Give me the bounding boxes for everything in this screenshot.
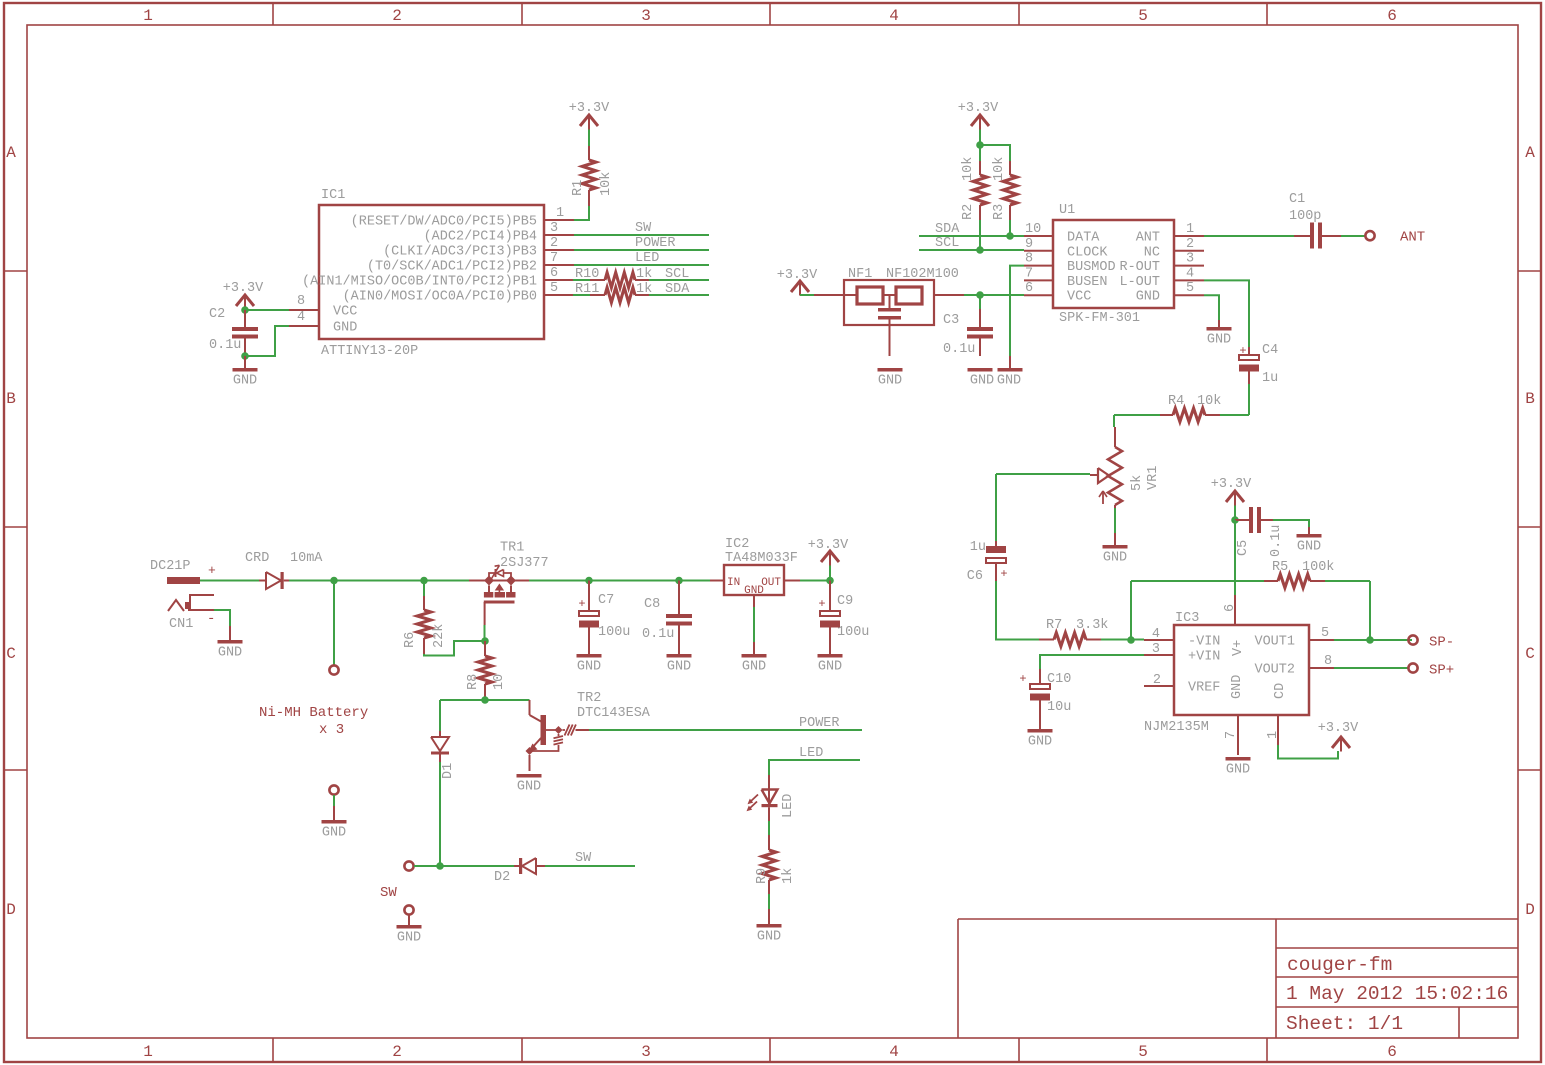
node terminal SW gnd xyxy=(404,905,413,914)
wire net SW xyxy=(545,851,635,866)
svg-text:100u: 100u xyxy=(837,625,869,640)
svg-text:NF102M100: NF102M100 xyxy=(886,267,959,282)
svg-text:+3.3V: +3.3V xyxy=(223,281,264,296)
svg-text:CN1: CN1 xyxy=(169,617,193,632)
svg-text:SCL: SCL xyxy=(935,236,959,251)
wire net LED xyxy=(769,746,860,775)
svg-text:9: 9 xyxy=(1025,237,1033,252)
svg-text:C5: C5 xyxy=(1236,540,1251,556)
wire xyxy=(1010,266,1024,356)
svg-text:GND: GND xyxy=(667,660,691,675)
transistor TR1 2SJ377 xyxy=(469,541,549,626)
svg-text:+3.3V: +3.3V xyxy=(1318,721,1359,736)
wire xyxy=(484,625,486,641)
svg-text:5: 5 xyxy=(1138,7,1148,25)
svg-text:+3.3V: +3.3V xyxy=(569,101,610,116)
wire xyxy=(574,206,589,220)
svg-text:GND: GND xyxy=(1230,675,1245,699)
ground (C9) xyxy=(818,654,843,675)
power +3.3V (R1) xyxy=(569,101,610,130)
svg-text:VOUT2: VOUT2 xyxy=(1254,663,1295,678)
svg-text:3: 3 xyxy=(641,7,651,25)
svg-text:R7: R7 xyxy=(1046,618,1062,633)
power +3.3V (R2/R3) xyxy=(958,101,999,130)
svg-text:POWER: POWER xyxy=(799,716,840,731)
transistor TR2 DTC143ESA xyxy=(526,691,651,771)
wire xyxy=(1113,415,1115,427)
wire xyxy=(1101,639,1144,641)
svg-text:C: C xyxy=(1525,645,1535,663)
node junction xyxy=(241,352,249,360)
svg-text:IC3: IC3 xyxy=(1175,611,1199,626)
wire xyxy=(1341,235,1365,237)
svg-text:TR2: TR2 xyxy=(577,691,601,706)
resistor R7 3.3k xyxy=(1039,618,1108,646)
svg-text:1: 1 xyxy=(1186,222,1194,237)
svg-text:ATTINY13-20P: ATTINY13-20P xyxy=(321,344,418,359)
svg-text:C1: C1 xyxy=(1289,192,1305,207)
connector DC21P xyxy=(150,559,216,584)
svg-text:1: 1 xyxy=(556,206,564,221)
svg-text:NJM2135M: NJM2135M xyxy=(1144,720,1209,735)
power +3.3V (C2) xyxy=(223,281,264,310)
ground (SW) xyxy=(397,915,422,946)
svg-text:R-OUT: R-OUT xyxy=(1119,260,1160,275)
node junction xyxy=(436,862,444,870)
svg-text:(RESET/DW/ADC0/PCI5)PB5: (RESET/DW/ADC0/PCI5)PB5 xyxy=(351,215,537,230)
node junction xyxy=(1231,516,1239,524)
capacitor C2 0.1u xyxy=(209,307,258,356)
svg-text:+3.3V: +3.3V xyxy=(777,268,818,283)
svg-text:+: + xyxy=(1239,344,1246,358)
svg-text:10k: 10k xyxy=(992,157,1007,181)
op-amp IC3 NJM2135M xyxy=(1144,595,1334,755)
svg-text:5: 5 xyxy=(550,281,558,296)
svg-text:4: 4 xyxy=(889,7,899,25)
svg-text:GND: GND xyxy=(577,660,601,675)
svg-text:(AIN0/MOSI/OC0A/PCI0)PB0: (AIN0/MOSI/OC0A/PCI0)PB0 xyxy=(343,290,537,305)
svg-text:DATA: DATA xyxy=(1067,231,1100,246)
svg-text:GND: GND xyxy=(517,780,541,795)
capacitor C8 0.1u xyxy=(642,581,692,655)
svg-text:D: D xyxy=(6,901,16,919)
svg-text:R3: R3 xyxy=(992,204,1007,220)
svg-text:SP+: SP+ xyxy=(1429,663,1454,679)
svg-text:100p: 100p xyxy=(1289,209,1321,224)
svg-text:3: 3 xyxy=(641,1043,651,1061)
wire xyxy=(245,326,289,356)
svg-text:4: 4 xyxy=(1152,627,1160,642)
svg-text:4: 4 xyxy=(889,1043,899,1061)
node junction xyxy=(826,577,834,585)
ground (C8) xyxy=(667,654,692,675)
wire xyxy=(333,795,335,806)
battery label xyxy=(259,705,368,738)
resistor R5 100k xyxy=(1131,560,1370,588)
svg-text:6: 6 xyxy=(1387,1043,1397,1061)
node junction xyxy=(675,577,683,585)
svg-text:GND: GND xyxy=(233,374,257,389)
ground (NF1) xyxy=(878,368,903,389)
svg-text:GND: GND xyxy=(397,931,421,946)
wire xyxy=(200,580,259,582)
svg-text:GND: GND xyxy=(322,826,346,841)
resistor R8 10 xyxy=(466,641,507,700)
svg-text:10mA: 10mA xyxy=(290,551,323,566)
power +3.3V (NF1) xyxy=(777,268,818,296)
svg-text:(T0/SCK/ADC1/PCI2)PB2: (T0/SCK/ADC1/PCI2)PB2 xyxy=(367,260,537,275)
svg-text:x 3: x 3 xyxy=(319,722,344,738)
svg-text:100u: 100u xyxy=(598,625,630,640)
svg-text:7: 7 xyxy=(1224,731,1239,739)
wire net SW xyxy=(574,221,709,236)
node terminal SW xyxy=(404,861,413,870)
svg-text:C6: C6 xyxy=(967,569,983,584)
svg-text:2: 2 xyxy=(1186,237,1194,252)
svg-text:22k: 22k xyxy=(432,624,447,648)
svg-text:R10: R10 xyxy=(575,267,599,282)
svg-text:VR1: VR1 xyxy=(1146,466,1161,490)
svg-text:10: 10 xyxy=(1025,222,1041,237)
capacitor C9 100u xyxy=(818,581,869,655)
wire xyxy=(753,607,755,642)
wire xyxy=(1204,235,1294,237)
svg-text:+: + xyxy=(818,597,825,611)
wire xyxy=(964,294,1024,296)
node junction xyxy=(481,696,489,704)
svg-text:6: 6 xyxy=(1025,281,1033,296)
svg-text:VCC: VCC xyxy=(1067,290,1091,305)
svg-text:-VIN: -VIN xyxy=(1188,635,1220,650)
svg-text:CRD: CRD xyxy=(245,551,269,566)
svg-text:OUT: OUT xyxy=(761,577,781,589)
svg-text:7: 7 xyxy=(1025,266,1033,281)
wire xyxy=(1204,295,1219,320)
svg-text:8: 8 xyxy=(1324,654,1332,669)
svg-text:Sheet: 1/1: Sheet: 1/1 xyxy=(1286,1013,1403,1035)
wire net POWER xyxy=(574,236,709,251)
svg-text:GND: GND xyxy=(218,646,242,661)
svg-text:10: 10 xyxy=(492,674,507,690)
wire xyxy=(768,894,770,909)
svg-text:SCL: SCL xyxy=(665,267,689,282)
svg-text:D2: D2 xyxy=(494,870,510,885)
wire xyxy=(800,294,814,296)
wire xyxy=(980,145,1010,161)
svg-text:LED: LED xyxy=(781,794,796,818)
svg-text:+3.3V: +3.3V xyxy=(1211,477,1252,492)
node junction xyxy=(976,291,984,299)
node junction xyxy=(976,246,984,254)
svg-text:VREF: VREF xyxy=(1188,681,1220,696)
svg-text:6: 6 xyxy=(1223,604,1238,612)
node junction xyxy=(976,141,984,149)
wire xyxy=(440,699,530,701)
svg-text:GND: GND xyxy=(757,930,781,945)
svg-text:3: 3 xyxy=(550,221,558,236)
svg-text:B: B xyxy=(6,390,16,408)
capacitor C1 100p xyxy=(1289,192,1341,249)
svg-text:V+: V+ xyxy=(1231,640,1246,656)
svg-text:GND: GND xyxy=(1028,735,1052,750)
svg-text:1k: 1k xyxy=(781,868,796,884)
svg-text:0.1u: 0.1u xyxy=(642,627,674,642)
wire net SDA xyxy=(649,282,709,297)
wire xyxy=(1334,667,1408,669)
node junction xyxy=(481,637,489,645)
svg-text:B: B xyxy=(1525,390,1535,408)
node junction xyxy=(420,577,428,585)
svg-text:SDA: SDA xyxy=(935,222,960,237)
svg-text:GND: GND xyxy=(997,374,1021,389)
svg-text:2: 2 xyxy=(392,1043,402,1061)
regulator IC2 TA48M033F xyxy=(710,537,800,607)
node terminal SP+ xyxy=(1408,663,1454,679)
svg-text:CD: CD xyxy=(1273,683,1288,699)
svg-text:3.3k: 3.3k xyxy=(1076,618,1108,633)
svg-text:U1: U1 xyxy=(1059,203,1075,218)
svg-text:BUSMOD: BUSMOD xyxy=(1067,260,1116,275)
svg-text:IC2: IC2 xyxy=(725,537,749,552)
svg-text:C8: C8 xyxy=(644,597,660,612)
wire net LED xyxy=(574,251,709,266)
svg-text:VOUT1: VOUT1 xyxy=(1254,635,1295,650)
ground (U1 pin5) xyxy=(1207,320,1232,348)
resistor R3 10k xyxy=(992,157,1017,236)
svg-text:A: A xyxy=(1525,144,1535,162)
node junction xyxy=(330,577,338,585)
svg-text:10u: 10u xyxy=(1047,700,1071,715)
ground (C10) xyxy=(1028,729,1053,750)
svg-text:1: 1 xyxy=(1266,731,1281,739)
svg-text:Ni-MH Battery: Ni-MH Battery xyxy=(259,705,368,721)
svg-text:6: 6 xyxy=(1387,7,1397,25)
svg-text:GND: GND xyxy=(742,660,766,675)
svg-text:1: 1 xyxy=(143,7,153,25)
wire net SDA xyxy=(919,222,1024,237)
svg-text:1u: 1u xyxy=(1262,371,1278,386)
svg-text:+: + xyxy=(578,597,585,611)
wire xyxy=(768,821,770,835)
svg-text:TR1: TR1 xyxy=(500,541,524,556)
wire xyxy=(1204,280,1249,347)
filter NF1 NF102M100 xyxy=(814,267,964,356)
svg-text:NF1: NF1 xyxy=(848,267,872,282)
svg-text:0.1u: 0.1u xyxy=(209,338,241,353)
svg-text:+: + xyxy=(1000,567,1007,581)
node terminal battery+ xyxy=(329,665,338,674)
ground (IC2) xyxy=(742,642,767,675)
svg-text:1u: 1u xyxy=(970,540,986,555)
svg-text:SDA: SDA xyxy=(665,282,690,297)
wire wiper xyxy=(996,473,1090,475)
wire rail xyxy=(289,580,469,582)
wire xyxy=(1234,506,1236,521)
node terminal ANT xyxy=(1365,230,1425,246)
node junction xyxy=(585,577,593,585)
diode D2 xyxy=(494,858,545,885)
svg-text:7: 7 xyxy=(550,251,558,266)
svg-text:5k: 5k xyxy=(1130,475,1145,491)
svg-text:C9: C9 xyxy=(837,594,853,609)
ground (TR2) xyxy=(517,774,542,795)
svg-text:(AIN1/MISO/OC0B/INT0/PCI2)PB1: (AIN1/MISO/OC0B/INT0/PCI2)PB1 xyxy=(302,275,537,290)
svg-text:couger-fm: couger-fm xyxy=(1287,954,1392,976)
resistor R6 22k xyxy=(403,581,447,655)
capacitor C7 100u xyxy=(578,581,630,655)
svg-text:5: 5 xyxy=(1138,1043,1148,1061)
svg-text:R11: R11 xyxy=(575,282,599,297)
wire xyxy=(995,474,997,541)
wire xyxy=(439,762,441,866)
ground (CN1) xyxy=(218,626,243,661)
svg-text:R5: R5 xyxy=(1272,560,1288,575)
svg-text:VCC: VCC xyxy=(333,305,357,320)
svg-text:4: 4 xyxy=(1186,266,1194,281)
wire xyxy=(588,130,590,147)
resistor R4 10k xyxy=(1114,394,1249,422)
svg-text:2SJ377: 2SJ377 xyxy=(500,556,549,571)
node terminal SP- xyxy=(1408,635,1454,651)
capacitor C5 0.1u xyxy=(1235,507,1284,557)
svg-text:R1: R1 xyxy=(571,180,586,196)
svg-text:R9: R9 xyxy=(755,868,770,884)
svg-text:5: 5 xyxy=(1321,626,1329,641)
svg-text:+: + xyxy=(1019,672,1026,686)
svg-text:L-OUT: L-OUT xyxy=(1119,275,1160,290)
svg-text:POWER: POWER xyxy=(635,236,676,251)
svg-text:LED: LED xyxy=(635,251,659,266)
resistor R1 10k xyxy=(571,146,614,206)
LED LED1 xyxy=(747,775,796,821)
svg-text:0.1u: 0.1u xyxy=(1269,525,1284,557)
ground (battery) xyxy=(322,806,347,841)
svg-text:2: 2 xyxy=(1153,673,1161,688)
svg-text:IC1: IC1 xyxy=(321,188,345,203)
svg-text:+3.3V: +3.3V xyxy=(958,101,999,116)
capacitor C4 1u xyxy=(1239,343,1278,386)
ground (IC3) xyxy=(1226,757,1251,778)
svg-text:1 May 2012 15:02:16: 1 May 2012 15:02:16 xyxy=(1286,983,1508,1005)
power +3.3V (C5) xyxy=(1211,477,1252,506)
wire net SCL xyxy=(919,236,1024,251)
wire xyxy=(800,580,830,582)
svg-text:GND: GND xyxy=(1226,763,1250,778)
svg-text:5: 5 xyxy=(1186,281,1194,296)
potentiometer VR1 5k xyxy=(1090,427,1161,508)
wire xyxy=(1273,520,1309,527)
svg-text:A: A xyxy=(6,144,16,162)
power +3.3V (IC3 CD) xyxy=(1318,721,1359,752)
capacitor C3 0.1u xyxy=(943,295,993,357)
svg-text:BUSEN: BUSEN xyxy=(1067,275,1108,290)
resistor R2 10k xyxy=(961,145,987,250)
svg-text:+VIN: +VIN xyxy=(1188,650,1220,665)
wire rail xyxy=(529,580,710,582)
svg-text:TA48M033F: TA48M033F xyxy=(725,551,798,566)
wire xyxy=(214,610,230,626)
svg-text:1: 1 xyxy=(143,1043,153,1061)
svg-text:SW: SW xyxy=(575,851,592,866)
svg-text:NC: NC xyxy=(1144,245,1160,260)
wire xyxy=(414,865,514,867)
svg-text:C10: C10 xyxy=(1047,672,1071,687)
node junction xyxy=(1366,636,1374,644)
svg-text:DTC143ESA: DTC143ESA xyxy=(577,706,651,721)
svg-text:3: 3 xyxy=(1186,252,1194,267)
svg-text:C3: C3 xyxy=(943,313,959,328)
wire xyxy=(1114,508,1116,533)
svg-text:3: 3 xyxy=(1152,642,1160,657)
svg-text:C4: C4 xyxy=(1262,343,1278,358)
svg-text:GND: GND xyxy=(878,374,902,389)
ground (R9) xyxy=(757,909,782,945)
resistor R9 1k xyxy=(755,835,796,894)
svg-text:GND: GND xyxy=(970,374,994,389)
svg-text:0.1u: 0.1u xyxy=(943,342,975,357)
ground (C3) xyxy=(968,368,995,389)
svg-text:10k: 10k xyxy=(599,172,614,196)
wire xyxy=(424,641,485,656)
diode D1 xyxy=(431,700,456,779)
wire pin6 supply xyxy=(1234,520,1236,595)
op-amp U1 SPK-FM-301 xyxy=(1024,203,1204,326)
wire net POWER xyxy=(589,716,862,731)
capacitor C6 1u xyxy=(967,540,1008,584)
svg-text:(CLKI/ADC3/PCI3)PB3: (CLKI/ADC3/PCI3)PB3 xyxy=(383,245,537,260)
capacitor C10 10u xyxy=(1019,669,1071,729)
svg-text:R4: R4 xyxy=(1168,394,1184,409)
svg-text:GND: GND xyxy=(818,660,842,675)
label SW terminal xyxy=(380,885,397,901)
svg-text:+3.3V: +3.3V xyxy=(808,538,849,553)
svg-text:10k: 10k xyxy=(1197,394,1221,409)
wire xyxy=(1248,384,1250,415)
connector CN1 jack xyxy=(168,595,215,632)
svg-text:GND: GND xyxy=(1207,333,1231,348)
svg-text:GND: GND xyxy=(333,321,357,336)
node junction xyxy=(1006,232,1014,240)
svg-text:+: + xyxy=(208,563,216,578)
svg-text:LED: LED xyxy=(799,746,823,761)
svg-text:ANT: ANT xyxy=(1136,231,1160,246)
ground (U1 pin8) xyxy=(997,356,1023,389)
wire xyxy=(1278,745,1338,759)
wire xyxy=(996,581,1039,640)
resistor R11 1k xyxy=(573,282,652,303)
wire xyxy=(979,130,981,146)
svg-text:(ADC2/PCI4)PB4: (ADC2/PCI4)PB4 xyxy=(424,230,537,245)
svg-text:D: D xyxy=(1525,901,1535,919)
wire xyxy=(333,581,335,666)
wire xyxy=(1130,581,1132,640)
svg-text:GND: GND xyxy=(1103,551,1127,566)
wire xyxy=(1334,639,1412,641)
svg-text:8: 8 xyxy=(297,294,305,309)
svg-text:8: 8 xyxy=(1025,252,1033,267)
ground (C7) xyxy=(577,654,602,675)
svg-text:SP-: SP- xyxy=(1429,635,1454,651)
ground (C5) xyxy=(1297,527,1322,555)
svg-text:2: 2 xyxy=(392,7,402,25)
svg-text:SW: SW xyxy=(380,885,397,901)
wire xyxy=(245,309,289,311)
svg-text:IN: IN xyxy=(727,577,740,589)
wire xyxy=(1369,581,1371,640)
svg-text:C2: C2 xyxy=(209,307,225,322)
svg-text:ANT: ANT xyxy=(1400,230,1425,246)
power +3.3V (C9) xyxy=(808,538,849,581)
